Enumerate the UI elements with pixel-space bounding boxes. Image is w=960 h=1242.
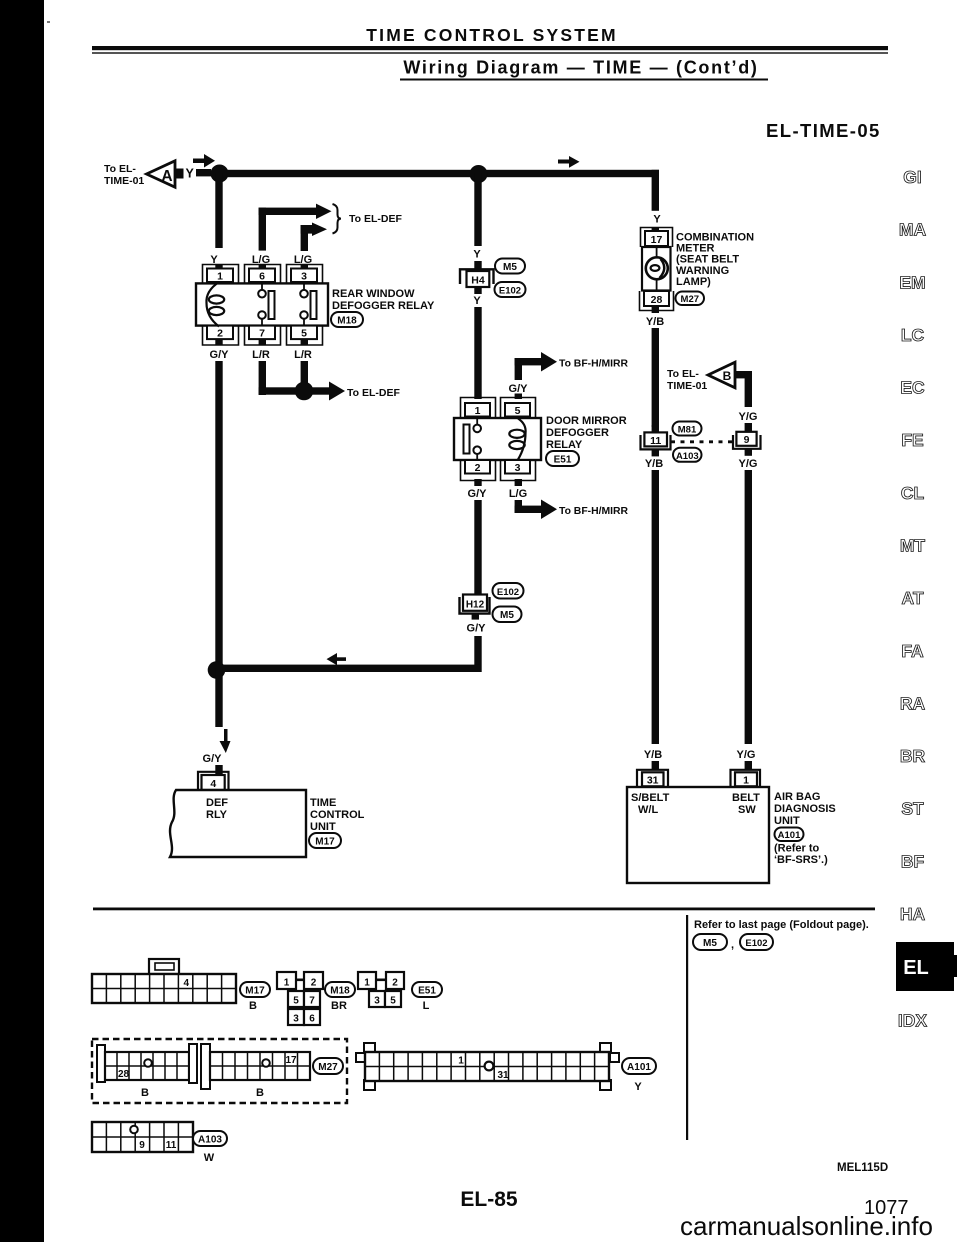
connector id oval M18 — [331, 312, 363, 327]
svg-text:3: 3 — [374, 996, 380, 1007]
wire: triangle B elbow down — [735, 371, 752, 378]
svg-text:RELAY: RELAY — [546, 439, 583, 451]
relay M18 pin 5 — [287, 326, 323, 346]
relay M18 coil symbol — [206, 282, 224, 327]
svg-text:M18: M18 — [337, 316, 357, 327]
svg-text:HA: HA — [900, 904, 926, 924]
sidebar tab RA — [900, 693, 926, 713]
svg-text:BELT: BELT — [732, 792, 760, 804]
combination meter: pin 17 — [641, 228, 673, 248]
svg-text:Y/G: Y/G — [739, 411, 758, 423]
svg-text:31: 31 — [647, 775, 659, 787]
svg-text:To EL-DEF: To EL-DEF — [349, 213, 402, 225]
svg-text:9: 9 — [139, 1140, 145, 1151]
svg-text:EL: EL — [903, 957, 929, 979]
time control unit M17: pin 4 — [198, 772, 229, 790]
wire: middle vertical Y drop to H4 — [474, 173, 481, 246]
svg-text:7: 7 — [259, 328, 265, 340]
svg-text:4: 4 — [183, 978, 189, 989]
svg-text:G/Y: G/Y — [203, 753, 223, 765]
wire: left column continues down — [215, 668, 222, 727]
sidebar tab GI — [903, 167, 921, 187]
relay E51 coil symbol — [509, 419, 525, 460]
inline connector H12 — [460, 595, 490, 620]
svg-text:B: B — [141, 1087, 149, 1099]
bottom separator rule — [93, 908, 875, 911]
svg-text:TIME: TIME — [310, 797, 336, 809]
svg-text:Y: Y — [653, 214, 661, 226]
connector face M27 right half — [201, 1044, 310, 1099]
small flow arrow above bus — [558, 156, 580, 168]
sidebar tab BF — [901, 851, 925, 871]
svg-text:BR: BR — [900, 746, 926, 766]
svg-text:28: 28 — [118, 1069, 130, 1080]
wire: relay pin3 up-elbow to EL-DEF arrow — [301, 223, 327, 270]
relay M18 pin 2 — [203, 326, 239, 346]
relay M18 contact 6-7 — [258, 282, 274, 326]
svg-text:H12: H12 — [466, 600, 485, 611]
connector id oval M5 (H4 upper) — [495, 259, 525, 274]
connector face M18 — [277, 972, 323, 1025]
sidebar tab EC — [900, 378, 925, 398]
svg-text:1: 1 — [284, 978, 290, 989]
svg-text:2: 2 — [392, 978, 398, 989]
svg-text:DEFOGGER RELAY: DEFOGGER RELAY — [332, 300, 435, 312]
sidebar tab HA — [900, 904, 926, 924]
svg-text:5: 5 — [293, 996, 299, 1007]
footnote oval M5 — [693, 934, 727, 950]
combination meter: lamp body — [642, 247, 671, 291]
svg-text:11: 11 — [166, 1140, 177, 1151]
wire: Y/B long drop to air bag unit — [652, 470, 659, 744]
wire: H12 down to return elbow — [474, 636, 481, 672]
relay M18 contact 3-5 — [300, 282, 316, 326]
svg-text:E51: E51 — [418, 986, 436, 997]
connector-direction triangle B to EL-TIME-01 — [667, 362, 735, 392]
wire+arrow: mirror relay pin 3 to BF-H/MIRR — [515, 479, 629, 519]
wire: meter down to connector 11 — [652, 328, 659, 427]
footnote divider vertical line — [686, 915, 688, 1140]
svg-text:E102: E102 — [499, 286, 521, 297]
junction node (left column, return join) — [208, 661, 226, 679]
svg-text:M27: M27 — [681, 294, 699, 305]
speck artifact — [47, 21, 50, 23]
junction node (left, on main bus) — [211, 165, 229, 183]
svg-text:L/G: L/G — [509, 488, 527, 500]
svg-text:FA: FA — [901, 641, 924, 661]
svg-text:B: B — [256, 1087, 264, 1099]
svg-text:31: 31 — [497, 1070, 509, 1081]
small flow arrow at top-left — [193, 154, 215, 168]
wire: relay pin 2 long G/Y drop — [215, 361, 222, 669]
svg-text:M27: M27 — [318, 1062, 338, 1073]
svg-text:3: 3 — [293, 1014, 299, 1025]
svg-text:L/R: L/R — [252, 349, 270, 361]
wire: stub into TCU pin 4 — [215, 765, 222, 774]
connector face A103 — [92, 1122, 193, 1152]
svg-text:LC: LC — [901, 325, 925, 345]
connector id oval M17 (face) — [240, 982, 270, 997]
svg-text:RA: RA — [900, 693, 926, 713]
svg-text:Y/B: Y/B — [645, 458, 663, 470]
relay M18 pin 6 — [245, 265, 281, 284]
wire: Y/G long drop to air bag unit — [745, 470, 752, 744]
sidebar tab FE — [901, 430, 923, 450]
sidebar tab BR — [900, 746, 926, 766]
connector face M17: tab — [149, 959, 179, 974]
svg-text:EL-85: EL-85 — [460, 1188, 518, 1211]
relay M18 rear window defogger: body — [196, 283, 328, 325]
wire: bus elbow down to combination meter — [652, 170, 659, 211]
svg-text:BF: BF — [901, 851, 925, 871]
brace and To EL-DEF label (top) — [333, 204, 342, 234]
footnote oval E102 — [740, 934, 773, 950]
svg-text:EC: EC — [900, 378, 925, 398]
sidebar tab ST — [901, 799, 924, 819]
svg-text:W: W — [204, 1152, 215, 1164]
air bag diagnosis unit: pin 1 — [731, 770, 761, 787]
scan gutter black band — [0, 0, 44, 1242]
small flow arrow down to TCU — [220, 729, 231, 753]
svg-text:A: A — [161, 168, 172, 185]
relay E51 pin 3 — [501, 460, 536, 481]
wire: horizontal return to left column — [219, 665, 479, 672]
svg-text:B: B — [723, 369, 732, 383]
svg-text:Y/B: Y/B — [646, 316, 664, 328]
svg-text:M17: M17 — [245, 986, 265, 997]
inline connector pin 9 — [733, 432, 761, 456]
relay E51 door mirror defogger: body — [454, 418, 541, 460]
svg-text:2: 2 — [475, 462, 481, 474]
svg-text:G/Y: G/Y — [468, 488, 488, 500]
junction node (To EL-DEF bottom) — [295, 382, 314, 401]
svg-text:2: 2 — [311, 978, 317, 989]
combination meter: bulb — [646, 257, 668, 279]
svg-text:M5: M5 — [703, 938, 717, 949]
svg-text:Y/G: Y/G — [739, 458, 758, 470]
svg-text:Y/G: Y/G — [737, 749, 756, 761]
svg-text:DOOR MIRROR: DOOR MIRROR — [546, 415, 627, 427]
svg-text:Y: Y — [473, 249, 481, 261]
svg-text:1: 1 — [217, 271, 223, 283]
svg-text:7: 7 — [309, 996, 315, 1007]
svg-text:M81: M81 — [678, 425, 697, 436]
junction node (middle, on main bus) — [470, 165, 488, 183]
svg-text:3: 3 — [301, 271, 307, 283]
svg-text:17: 17 — [285, 1055, 297, 1066]
relay E51 pin 2 — [461, 460, 496, 481]
connector face A101 — [356, 1043, 619, 1090]
svg-text:RLY: RLY — [206, 809, 228, 821]
wire: relay pin6 up-elbow to EL-DEF arrow — [259, 204, 332, 269]
svg-text:CONTROL: CONTROL — [310, 809, 365, 821]
svg-text:G/Y: G/Y — [509, 383, 529, 395]
connector face M27 left half — [97, 1044, 197, 1099]
relay M18 pin 3 — [287, 265, 323, 284]
svg-text:4: 4 — [210, 778, 216, 790]
svg-text:AT: AT — [901, 588, 923, 608]
svg-text:MA: MA — [899, 220, 927, 240]
svg-text:E102: E102 — [745, 938, 767, 949]
svg-text:9: 9 — [744, 434, 750, 446]
connector id oval M27 — [676, 292, 705, 306]
svg-text:(Refer to: (Refer to — [774, 843, 820, 855]
svg-text:1: 1 — [743, 775, 749, 787]
relay E51 contact 1-2 — [464, 418, 482, 461]
sidebar tab EL (active) — [896, 942, 957, 991]
sidebar tab MA — [899, 220, 927, 240]
svg-text:M5: M5 — [500, 610, 514, 621]
connector id oval A101 (face) — [622, 1058, 656, 1074]
connector id oval M81 — [673, 422, 702, 436]
connector id oval E51 — [546, 451, 579, 466]
time control unit M17: body (torn left edge) — [170, 790, 306, 857]
svg-text:28: 28 — [651, 294, 663, 306]
svg-text:Y: Y — [186, 167, 195, 181]
svg-text:TIME-01: TIME-01 — [104, 175, 144, 187]
svg-text:CL: CL — [901, 483, 925, 503]
svg-text:FE: FE — [901, 430, 923, 450]
svg-text:B: B — [249, 1000, 257, 1012]
combination meter: pin 28 — [640, 291, 674, 311]
svg-text:To BF-H/MIRR: To BF-H/MIRR — [559, 506, 629, 517]
svg-text:1: 1 — [364, 978, 370, 989]
wire: H4 down to door mirror relay pin 1 — [474, 307, 481, 399]
wire: main horizontal bus — [219, 170, 659, 177]
wire+arrow: mirror relay pin 5 to BF-H/MIRR — [515, 352, 629, 399]
svg-text:M5: M5 — [503, 262, 517, 273]
subtitle underline — [400, 79, 768, 81]
svg-text:DEF: DEF — [206, 797, 228, 809]
svg-text:TIME CONTROL SYSTEM: TIME CONTROL SYSTEM — [366, 25, 617, 45]
wire: left vertical Y drop to relay pin 1 — [215, 173, 222, 248]
svg-text:5: 5 — [515, 405, 521, 417]
svg-text:Refer to last page (Foldout pa: Refer to last page (Foldout page). — [694, 919, 869, 931]
relay M18 pin 1 — [203, 265, 239, 284]
connector id oval A103 (face) — [193, 1131, 227, 1146]
svg-text:E102: E102 — [497, 587, 519, 598]
svg-text:W/L: W/L — [638, 804, 658, 816]
connector face E51 — [358, 972, 404, 1007]
sidebar tab CL — [901, 483, 925, 503]
arrow To EL-DEF (bottom) — [312, 382, 400, 401]
svg-text:M18: M18 — [330, 986, 350, 997]
svg-text:1: 1 — [475, 405, 481, 417]
connector id oval E102 (H4 lower) — [495, 282, 526, 297]
svg-text:G/Y: G/Y — [210, 349, 230, 361]
header rule — [92, 46, 888, 50]
svg-text:BR: BR — [331, 1000, 347, 1012]
svg-text:To EL-DEF: To EL-DEF — [347, 387, 400, 399]
svg-text:G/Y: G/Y — [467, 623, 487, 635]
relay E51 pin 1 — [461, 398, 496, 419]
svg-text:Y: Y — [634, 1081, 642, 1093]
svg-text:1: 1 — [458, 1056, 464, 1067]
svg-text:A101: A101 — [778, 830, 801, 841]
svg-text:ST: ST — [901, 799, 924, 819]
svg-text:6: 6 — [309, 1014, 315, 1025]
relay E51 pin 5 — [501, 398, 536, 419]
svg-text:MT: MT — [900, 536, 926, 556]
sidebar tab IDX — [898, 1011, 928, 1031]
svg-text:,: , — [731, 939, 734, 951]
connector id oval E102 (H12 upper) — [493, 583, 524, 599]
svg-text:Wiring Diagram — TIME — (Cont’: Wiring Diagram — TIME — (Cont’d) — [403, 58, 758, 78]
sidebar tab EM — [899, 272, 925, 292]
svg-text:EM: EM — [899, 272, 925, 292]
svg-text:5: 5 — [301, 328, 307, 340]
inline connector pin 11 — [641, 425, 671, 456]
svg-text:SW: SW — [738, 804, 756, 816]
svg-text:To BF-H/MIRR: To BF-H/MIRR — [559, 359, 629, 370]
wire: relay pin 5 down — [301, 361, 308, 395]
wire: mirror relay pin 2 down to H12 — [474, 479, 481, 486]
svg-text:DEFOGGER: DEFOGGER — [546, 427, 609, 439]
connector id oval M27 (face) — [313, 1058, 343, 1074]
svg-text:REAR WINDOW: REAR WINDOW — [332, 288, 415, 300]
svg-text:carmanualsonline.info: carmanualsonline.info — [680, 1211, 933, 1241]
connector face group M27 dashed box — [92, 1039, 347, 1103]
svg-text:11: 11 — [650, 435, 661, 447]
svg-text:A103: A103 — [198, 1135, 222, 1146]
svg-text:17: 17 — [651, 234, 663, 246]
connector face M17: grid — [92, 974, 236, 1003]
sidebar tab MT — [900, 536, 926, 556]
svg-text:M17: M17 — [315, 837, 335, 848]
sidebar tab FA — [901, 641, 924, 661]
connector id oval A103 — [673, 448, 702, 462]
svg-text:2: 2 — [217, 328, 223, 340]
svg-text:S/BELT: S/BELT — [631, 792, 670, 804]
wire: relay pin 7 down elbow — [259, 361, 266, 395]
svg-text:Y: Y — [473, 295, 481, 307]
svg-text:UNIT: UNIT — [774, 815, 800, 827]
svg-text:3: 3 — [515, 462, 521, 474]
relay M18 pin 7 — [245, 326, 281, 346]
svg-text:LAMP): LAMP) — [676, 276, 711, 288]
sidebar tab AT — [901, 588, 923, 608]
air bag diagnosis unit: body — [627, 787, 769, 883]
svg-text:A101: A101 — [627, 1062, 651, 1073]
connector id oval A101 — [775, 828, 804, 842]
svg-text:Y/B: Y/B — [644, 749, 662, 761]
svg-text:To EL-: To EL- — [104, 163, 136, 175]
svg-text:E51: E51 — [554, 455, 572, 466]
svg-text:H4: H4 — [471, 275, 485, 287]
connector id oval M5 (H12 lower) — [493, 607, 522, 623]
svg-text:‘BF-SRS’.): ‘BF-SRS’.) — [774, 854, 828, 866]
small flow arrow (left) on return wire — [327, 653, 347, 665]
svg-text:GI: GI — [903, 167, 921, 187]
svg-text:AIR BAG: AIR BAG — [774, 791, 820, 803]
connector id oval M18 (face) — [325, 982, 355, 997]
svg-text:A103: A103 — [676, 451, 699, 462]
svg-text:5: 5 — [390, 996, 396, 1007]
svg-text:L: L — [423, 1000, 430, 1012]
connector-direction triangle A to EL-TIME-01 — [104, 161, 211, 187]
svg-text:To EL-: To EL- — [667, 368, 699, 380]
inline connector H4 — [460, 261, 494, 294]
dashed link 11 to 9 — [671, 440, 733, 443]
air bag diagnosis unit: pin 31 — [637, 770, 668, 787]
svg-text:MEL115D: MEL115D — [837, 1162, 888, 1174]
svg-text:UNIT: UNIT — [310, 821, 336, 833]
svg-text:L/R: L/R — [294, 349, 312, 361]
svg-text:6: 6 — [259, 271, 265, 283]
svg-text:TIME-01: TIME-01 — [667, 380, 707, 392]
sidebar tab LC — [901, 325, 925, 345]
svg-text:DIAGNOSIS: DIAGNOSIS — [774, 803, 836, 815]
svg-text:EL-TIME-05: EL-TIME-05 — [766, 120, 881, 141]
svg-text:IDX: IDX — [898, 1011, 928, 1031]
connector id oval M17 — [309, 833, 341, 848]
connector id oval E51 (face) — [412, 982, 442, 997]
